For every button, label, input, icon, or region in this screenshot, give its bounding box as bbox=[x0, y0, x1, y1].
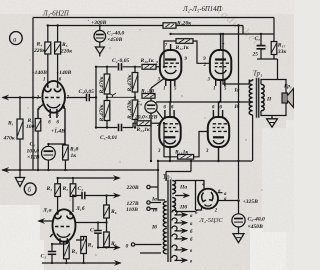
capacitor C5 0.01 bbox=[100, 123, 137, 141]
wire feedback bottom bbox=[257, 59, 278, 79]
tube L1 anode hooks bbox=[45, 86, 61, 92]
capacitor C1 100.0x12V electrolytic bbox=[27, 142, 56, 170]
resistor R9 20k bbox=[163, 21, 191, 28]
label L1-6N2P bbox=[42, 11, 70, 18]
wire plate bus branch to Tr1 primary top bbox=[223, 34, 249, 84]
label L1a bbox=[42, 208, 52, 214]
tube V2 pin numbers bbox=[154, 43, 187, 91]
wire rectifier cathode to +325 node bbox=[218, 193, 239, 201]
ground symbol on bus bbox=[15, 170, 24, 187]
capacitor C3 0.05 coupling bbox=[67, 89, 97, 101]
tube V6 anode hooks bbox=[55, 212, 74, 219]
tube L1 cathode arc bbox=[38, 104, 65, 144]
chassis mark mid ladder bbox=[109, 93, 116, 97]
resistor R16 1k bbox=[164, 123, 208, 159]
wire top frame bbox=[33, 17, 274, 19]
tube V7 rectifier 5Ts3S bbox=[198, 189, 218, 209]
wire +325V feed vertical bbox=[238, 26, 240, 200]
tube V6 L1a/L1b 6N2P envelope bbox=[53, 209, 76, 241]
capacitor C7 feedback bbox=[252, 34, 266, 59]
capacitor C9 40.0x450V electrolytic bbox=[232, 201, 265, 234]
wire +300V rail bbox=[48, 25, 243, 27]
wire Tr2 top feed bbox=[166, 161, 191, 181]
wire bottom coupling line bbox=[96, 127, 117, 129]
wire heater center tap arrow bbox=[175, 195, 189, 197]
label IIb bbox=[179, 204, 187, 211]
wire left frame bbox=[32, 18, 34, 171]
wire screen rail y102 bbox=[156, 101, 253, 103]
capacitor Cb2 coupling bbox=[73, 186, 120, 199]
transformer Tr2 heater taps bbox=[172, 210, 187, 261]
capacitor Cb1 cathode bbox=[41, 244, 67, 263]
wire b top rail with arrow bbox=[58, 177, 120, 179]
resistor R11 1k bbox=[164, 39, 210, 67]
wire rectifier bottom bbox=[175, 208, 202, 212]
resistor Rb2 bbox=[62, 178, 76, 212]
wire ground bus right bbox=[158, 161, 252, 170]
node a (section marker) bbox=[10, 32, 23, 45]
tube U1 L1 6N2P envelope bbox=[42, 81, 65, 113]
tube V5 output bottom-right 6P14P bbox=[208, 117, 229, 147]
speaker Gr1 bbox=[282, 84, 294, 108]
resistor R17 33k bbox=[271, 34, 286, 59]
label Ia bbox=[234, 88, 240, 94]
resistor Rb4 bbox=[76, 237, 93, 264]
resistor Rb5 bbox=[104, 223, 117, 248]
resistor Rb3 bbox=[64, 242, 78, 263]
transformer Tr1 label bbox=[253, 71, 262, 78]
resistor R5 220k bbox=[55, 26, 73, 86]
wire top coupling line bbox=[96, 66, 117, 68]
resistor R3 1k bbox=[48, 144, 78, 170]
labels heater tap letters bbox=[190, 214, 193, 265]
tube V2 output top-left 6P14P bbox=[160, 50, 181, 80]
tube V7 pin numbers bbox=[195, 183, 227, 216]
wire bottom plate riser to Tr1 primary bottom bbox=[252, 115, 254, 161]
wire b grid input arrow bbox=[39, 220, 53, 222]
wire b anode line bbox=[76, 222, 107, 224]
wire splitter riser bbox=[95, 67, 97, 128]
tube V4 output bottom-left 6P14P bbox=[159, 117, 180, 147]
tube V4 internals bbox=[164, 102, 178, 161]
ground symbol under speaker loop bbox=[267, 116, 278, 128]
resistor R15 1k bbox=[136, 121, 160, 133]
tube V3 internals bbox=[215, 34, 229, 102]
tube V3 pin numbers bbox=[203, 43, 227, 91]
resistor R10 1k bbox=[140, 58, 161, 69]
tube V6 grid dashes bbox=[55, 226, 70, 228]
wire ground bus arrow bbox=[3, 169, 11, 171]
wire right frame bbox=[273, 18, 275, 35]
wire rectifier anode top bbox=[175, 181, 204, 211]
resistor R12 80 cathode bbox=[140, 79, 164, 99]
resistor R8 470k bbox=[127, 67, 138, 93]
node b (section marker) bbox=[24, 183, 36, 195]
transformer Tr2 winding IIb bbox=[172, 198, 175, 211]
wire input arrow bbox=[3, 97, 42, 99]
ground symbol under C9 bbox=[233, 234, 244, 243]
label L4-5Ts3S bbox=[199, 217, 224, 224]
label IIa bbox=[179, 185, 187, 191]
transformer Tr1 secondary winding bbox=[261, 84, 264, 110]
wire b bottom rail with arrow bbox=[42, 262, 121, 264]
wire b nfb line with arrow bbox=[98, 247, 120, 249]
capacitor C2 40.0x450V electrolytic bbox=[91, 20, 125, 47]
tube V6 cathode arc bbox=[50, 234, 70, 245]
transformer Tr1 core bbox=[257, 78, 259, 118]
label +140V left bbox=[32, 70, 48, 76]
watermark bbox=[211, 2, 271, 55]
terminal 220V bbox=[126, 185, 159, 191]
label +325V bbox=[243, 199, 259, 205]
resistor R1 470k bbox=[3, 98, 24, 171]
label Iv primary bbox=[151, 224, 157, 231]
resistor R13 470k bbox=[127, 92, 138, 128]
wire mains riser bbox=[140, 170, 165, 253]
tube V5 internals bbox=[213, 102, 227, 161]
transformer Tr2 label bbox=[163, 174, 173, 181]
wire top plate bus y34 bbox=[171, 33, 274, 35]
transformer Tr2 primary winding I bbox=[163, 202, 166, 254]
terminal 110V bbox=[126, 207, 157, 213]
label +140V right bbox=[56, 70, 72, 76]
tube V5 pin numbers bbox=[205, 106, 223, 154]
label L1b bbox=[75, 205, 85, 212]
transformer Tr2 core bbox=[168, 180, 171, 263]
label L2-L5-6P14P bbox=[182, 6, 223, 13]
wire splitter mid link bbox=[107, 96, 135, 98]
capacitor C4 0.05 bbox=[112, 58, 141, 71]
tube V2 internals bbox=[165, 44, 179, 102]
wire rail drop to y34 bbox=[242, 26, 244, 35]
tube V3 output top-right 6P14P bbox=[210, 50, 231, 80]
tube L1 grid dashes bbox=[45, 97, 60, 99]
tube V4 pin numbers bbox=[156, 106, 174, 154]
resistor Rb6 bbox=[104, 196, 117, 223]
label Ia primary bbox=[151, 197, 157, 203]
terminal 127V bbox=[127, 201, 162, 207]
resistor R7 470k bbox=[99, 94, 110, 128]
terminal 0 bbox=[126, 243, 162, 250]
scan specks bbox=[27, 20, 262, 256]
resistor R6 470k bbox=[99, 67, 110, 95]
wire ground bus left bbox=[2, 169, 158, 171]
resistor R2 100 bbox=[26, 118, 41, 170]
tube V7 internals bbox=[202, 192, 213, 206]
resistor Rb1 bbox=[46, 178, 61, 212]
capacitor Cb3 bbox=[90, 223, 102, 248]
wire secondary loop II bbox=[261, 80, 286, 116]
resistor R4 220k bbox=[33, 26, 51, 86]
transformer Tr1 primary winding bbox=[249, 79, 252, 115]
label +1.4V bbox=[51, 129, 65, 135]
transformer Tr2 winding IIa bbox=[172, 181, 175, 194]
capacitor cathode bypass 20.0x12V electrolytic bbox=[134, 98, 164, 161]
label Ib primary bbox=[152, 207, 158, 214]
tube L1 pin numbers bbox=[36, 78, 70, 126]
ground symbol below C2 bbox=[95, 47, 104, 57]
label Ib bbox=[234, 103, 240, 110]
